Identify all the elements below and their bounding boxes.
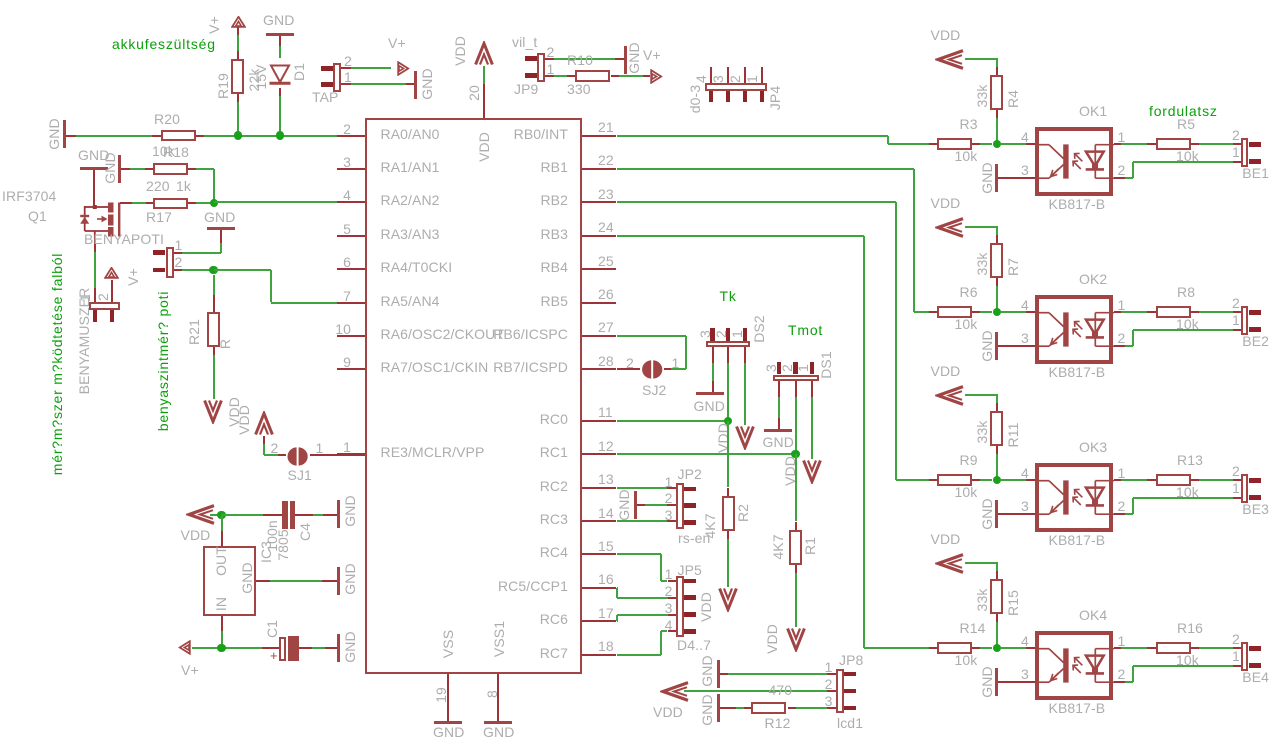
supply VDD (below R2, arrow down) [718, 587, 738, 612]
wire (RB3 net to OK4) [617, 235, 865, 237]
wire (RB0 net to OK1) [617, 135, 889, 137]
net label (rotated): m&#233;r?m?szer m?k&#246;dtet&#233;se falb&#243;l [50, 252, 64, 474]
resistor R7 33k [990, 243, 1003, 278]
wire (DS1 pin 3 to GND) [778, 381, 780, 397]
supply VDD (OK2 pull-up, arrow left) [931, 196, 961, 210]
supply VDD (arrow up, SJ1) [254, 411, 274, 436]
wire (OK3 pin 2 to BE3 pin 1) [1114, 513, 1126, 515]
junction [724, 417, 732, 425]
net label Tk [720, 289, 737, 303]
supply V+ (right of R10, arrow right) [650, 69, 663, 84]
wire [611, 75, 619, 77]
ground GND (C4) [337, 500, 340, 528]
resistor R15 33k [990, 579, 1003, 614]
wire [188, 202, 196, 204]
connector JP9 vil_t [512, 35, 537, 49]
net label akkufeszültség [112, 37, 216, 51]
wire [237, 27, 239, 35]
supply VDD (OK3 pull-up, arrow left) [931, 364, 961, 378]
net label fordulatsz [1149, 104, 1218, 118]
supply VDD (OK4 pull-up, arrow left) [931, 532, 961, 546]
resistor R19 22k [231, 59, 244, 94]
wire (IC3 IN pin) [221, 616, 223, 631]
IC pin 19 VSS [447, 674, 449, 721]
junction [209, 266, 217, 274]
optocoupler OK4 KB817-B [1079, 608, 1107, 622]
wire [196, 135, 204, 137]
wire (DS2 pin 1) [744, 347, 746, 363]
supply V+ (TAP pin 2) [388, 36, 406, 50]
ground GND (C1) [337, 634, 340, 662]
wire [121, 168, 130, 170]
ground GND (JP9 pin 2) [624, 46, 627, 74]
wire [1001, 479, 1026, 481]
OK4 pin labels [1021, 634, 1029, 648]
wire [998, 345, 1034, 347]
wire (RC7 pin 18 to JP5 pin 4) [617, 654, 661, 656]
wire [998, 177, 1034, 179]
resistor R8 10k [1114, 311, 1122, 313]
wire [545, 75, 554, 77]
transistor Q1 IRF3704 (N-MOSFET) [2, 189, 56, 203]
IC pin 7 RA5/AN4 [337, 302, 365, 304]
wire [965, 562, 999, 564]
wire [998, 681, 1034, 683]
wire (JP9 pin 2 to GND) [545, 58, 554, 60]
resistor R3 10k [937, 138, 972, 150]
ground GND (VSS) [434, 721, 462, 724]
wire [972, 311, 980, 313]
wire (to C4) [222, 514, 263, 516]
IC pin 12 RC1 [582, 453, 616, 455]
connector JP5 D4..7 [676, 576, 684, 637]
wire [213, 347, 215, 355]
connector JP8 lcd1 [836, 669, 844, 713]
ground GND (VSS1) [484, 721, 512, 724]
supply VDD (JP8 pin 2, arrow left) [660, 681, 690, 702]
connector BENYAPOTI [166, 247, 174, 278]
wire to RA5 [214, 269, 271, 271]
wire (RC3 pin 14 to JP2 pin 3) [617, 520, 668, 522]
wire [299, 647, 312, 649]
wire [341, 83, 351, 85]
connector TAP [333, 63, 341, 92]
solder jumper SJ1 [285, 447, 311, 466]
ground GND (TAP pin 1) [414, 71, 417, 99]
IC pin 2 RA0/AN0 [337, 135, 365, 137]
wire [965, 226, 999, 228]
IC pin 23 RB2 [582, 201, 616, 203]
IC pin 27 RB6/ICSPC [582, 335, 616, 337]
ground GND (Q1 drain) [78, 148, 109, 162]
junction [791, 450, 799, 458]
IC pin 10 RA6/OSC2/CKOUT [337, 335, 365, 337]
wire [972, 647, 980, 649]
wire [996, 563, 998, 571]
supply V+ (bottom left, arrow left) [178, 640, 191, 655]
resistor R16 10k [1114, 647, 1122, 649]
IC pin 13 RC2 [582, 487, 616, 489]
wire (RC2 pin 13 to JP2 pin 1) [617, 487, 660, 489]
ground GND (OK1 pin 3) [980, 162, 994, 193]
junction [993, 644, 1001, 652]
supply V+ (top of R19) [231, 16, 246, 28]
wire [965, 394, 999, 396]
net label Tmot [788, 323, 823, 337]
IC pin 5 RA3/AN3 [337, 235, 365, 237]
resistor R18 1k [153, 163, 188, 175]
IC pin 21 RB0/INT [582, 135, 616, 137]
ground GND (JP2 pin 2) [634, 491, 637, 519]
ground GND (DS2 pin 3) [696, 392, 724, 395]
wire [213, 169, 215, 203]
junction [217, 644, 225, 652]
ground GND (OK4 pin 3) [980, 666, 994, 697]
wire [1001, 311, 1026, 313]
IC pin 28 RB7/ICSPD [582, 368, 616, 370]
OK1 pin labels [1021, 130, 1029, 144]
ground GND (JP8 pin 1) [700, 655, 714, 686]
wire [788, 707, 796, 709]
ground GND (IC3) [337, 567, 340, 595]
junction [234, 131, 242, 139]
wire [66, 135, 76, 137]
resistor R5 10k [1114, 143, 1122, 145]
ground GND (OK2 pin 3) [980, 330, 994, 361]
wire (DS2 pin 2) [727, 347, 729, 363]
IC pin 1 RE3/MCLR/VPP [337, 453, 365, 455]
wire (DS1 pin 2) [795, 381, 797, 397]
solder jumper SJ2 [640, 360, 665, 379]
IC pin 24 RB3 [582, 235, 616, 237]
wire (pin 1 to GND) [174, 252, 183, 254]
supply VDD (DS1 pin 1, arrow down) [802, 459, 822, 484]
wire (source) [94, 239, 96, 252]
wire [996, 59, 998, 67]
wire (RC4 pin 15 to JP5 pin 1) [617, 553, 661, 555]
supply V+ (near R10) [643, 48, 661, 62]
resistor R17 220 [153, 198, 188, 210]
junction [210, 199, 218, 207]
ground GND (above D1) [263, 13, 294, 27]
supply VDD (DS2 pin 1, arrow down) [735, 425, 755, 450]
wire [263, 436, 265, 445]
resistor R6 10k [937, 306, 972, 318]
connector BE4 [1241, 642, 1249, 671]
IC pin 26 RB5 [582, 302, 616, 304]
wire [279, 88, 281, 96]
resistor R2 4K7 [727, 421, 729, 488]
wire [996, 446, 998, 454]
connector BENYAMUSZER [89, 302, 121, 310]
wire [1191, 311, 1199, 313]
IC pin 20 VDD [483, 84, 485, 118]
voltage regulator IC3 7805 [203, 546, 257, 616]
wire (OK2 pin 2 to BE2 pin 1) [1114, 345, 1126, 347]
resistor R11 33k [990, 411, 1003, 446]
capacitor C4 100n [282, 501, 288, 529]
wire [720, 707, 737, 709]
wire [720, 673, 729, 675]
resistor R10 330 [575, 70, 610, 82]
wire (DS2 pin 3 to GND) [712, 347, 714, 363]
IC U1 PIC16F886 (28-pin) [365, 118, 583, 674]
resistor R20 10k [161, 130, 196, 142]
wire [237, 94, 239, 102]
wire [996, 227, 998, 235]
supply V+ (BENYAMUSZER pin 2) [104, 267, 119, 279]
supply VDD (7805 out, arrow left) [186, 504, 216, 525]
optocoupler OK3 KB817-B [1079, 440, 1107, 454]
wire [111, 280, 113, 302]
zener diode D1 15V [269, 64, 291, 88]
wire [965, 58, 999, 60]
IC pin 3 RA1/AN1 [337, 168, 365, 170]
resistor R14 10k [937, 642, 972, 654]
wire [996, 278, 998, 286]
connector BE2 [1241, 306, 1249, 335]
wire (OK4 pin 2 to BE4 pin 1) [1114, 681, 1126, 683]
supply VDD (OK1 pull-up, arrow left) [931, 28, 961, 42]
wire (IC3 GND pin) [256, 580, 270, 582]
IC pin 6 RA4/T0CKI [337, 268, 365, 270]
junction [217, 511, 225, 519]
wire [483, 66, 485, 85]
IC pin 25 RB4 [582, 268, 616, 270]
wire [1191, 143, 1199, 145]
wire (pin 2) [174, 269, 183, 271]
wire (DS1 pin 1) [811, 381, 813, 397]
connector JP2 rs-en [676, 483, 684, 529]
junction [276, 131, 284, 139]
IC pin 8 VSS1 [497, 674, 499, 721]
wire (RC1 net) [617, 453, 796, 455]
junction [993, 476, 1001, 484]
wire [996, 395, 998, 403]
resistor R1 4K7 [795, 454, 797, 521]
OK3 pin labels [1021, 466, 1029, 480]
wire [210, 514, 222, 516]
resistor R21 R [213, 275, 215, 295]
ground GND (left of R18) [118, 155, 121, 183]
resistor R9 10k [937, 474, 972, 486]
wire (gate to R17) [120, 202, 132, 204]
wire (RB2 net to OK3) [617, 201, 897, 203]
wire [998, 513, 1034, 515]
wire (OK1 pin 2 to BE1 pin 1) [1114, 177, 1126, 179]
resistor R13 10k [1114, 479, 1122, 481]
wire [1191, 479, 1199, 481]
ground GND (left of R20) [63, 120, 66, 148]
wire (RC0 net) [617, 420, 728, 422]
wire [214, 201, 346, 203]
wire [972, 143, 980, 145]
IC pin 15 RC4 [582, 553, 616, 555]
OK2 pin labels [1021, 298, 1029, 312]
wire [684, 690, 827, 692]
wire (RB1 net to OK2) [617, 168, 914, 170]
net label (rotated): benyaszintm&#233;r? poti [155, 291, 169, 432]
wire [221, 515, 223, 531]
junction [993, 140, 1001, 148]
connector DS1 (3-pin) [777, 362, 781, 374]
wire (RC6 pin 17 to JP5 pin 3) [616, 620, 619, 622]
connector DS2 (3-pin) [710, 328, 714, 340]
wire [1191, 647, 1199, 649]
IC pin 16 RC5/CCP1 [582, 587, 616, 589]
IC pin 22 RB1 [582, 168, 616, 170]
IC pin 9 RA7/OSC1/CKIN [337, 368, 365, 370]
wire (pin 28 to SJ2) [617, 368, 641, 370]
wire [188, 168, 196, 170]
wire [1001, 143, 1026, 145]
supply VDD (below R1, arrow down) [786, 627, 806, 652]
wire [996, 110, 998, 118]
optocoupler OK1 KB817-B [1079, 104, 1107, 118]
wire (RC5 pin 16 to JP5 pin 2) [616, 587, 619, 589]
supply VDD (below R21, arrow down) [203, 399, 223, 424]
wire [192, 647, 262, 649]
ground GND (R12) [700, 694, 714, 725]
connector BE3 [1241, 474, 1249, 503]
IC pin 11 RC0 [582, 420, 616, 422]
wire (RB6 pin 27 to SJ2) [617, 335, 687, 337]
wire [341, 67, 351, 69]
IC pin 14 RC3 [582, 520, 616, 522]
supply VDD (pin 20, arrow up) [474, 41, 494, 66]
connector BE1 [1241, 138, 1249, 167]
wire [310, 454, 365, 456]
IC pin 4 RA2/AN2 [337, 201, 365, 203]
junction [993, 308, 1001, 316]
wire [279, 36, 281, 46]
wire [93, 170, 95, 206]
resistor R12 470 [751, 702, 786, 714]
ground GND (OK3 pin 3) [980, 498, 994, 529]
wire [295, 514, 313, 516]
wire [972, 479, 980, 481]
wire [637, 504, 645, 506]
ground GND (DS1 pin 3) [764, 429, 792, 432]
IC pin 17 RC6 [582, 620, 616, 622]
connector JP4 d0-3 [710, 67, 712, 84]
IC pin 18 RC7 [582, 654, 616, 656]
optocoupler OK2 KB817-B [1079, 272, 1107, 286]
capacitor C1 (electrolytic) [262, 647, 279, 649]
ground GND (BENYAPOTI pin 1) [204, 210, 235, 224]
wire [996, 614, 998, 622]
wire [1001, 647, 1026, 649]
resistor R4 33k [990, 75, 1003, 110]
